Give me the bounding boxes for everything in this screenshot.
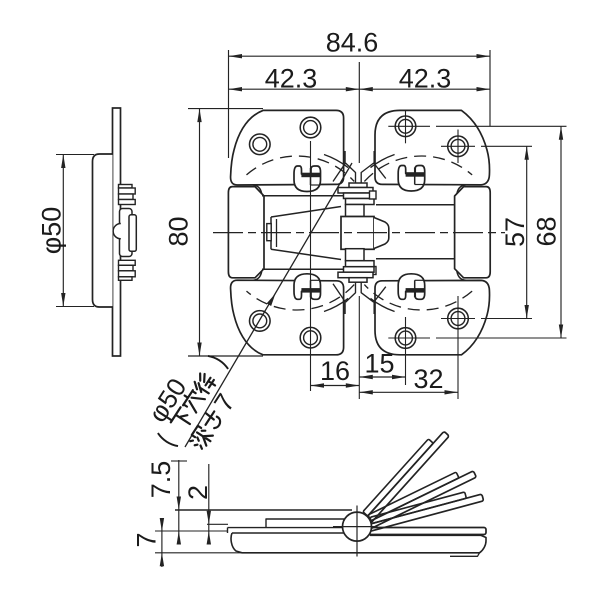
closed flap bar (right wing) xyxy=(362,528,486,535)
hole top-left outer-pair xyxy=(249,134,270,155)
extension line phi50 bottom xyxy=(56,306,94,308)
closed wing ledge xyxy=(266,519,344,528)
leader line pilot hole xyxy=(185,163,352,447)
center gap edge right xyxy=(373,151,375,163)
hole bottom-right inner-pair xyxy=(448,308,469,329)
left cup flange arc lower xyxy=(324,298,348,311)
extension line bottom (80) xyxy=(188,355,263,357)
pivot horizontal centerline xyxy=(333,526,378,528)
chamfer top-right plate xyxy=(457,185,466,196)
extension line hole 57 bottom xyxy=(481,318,532,320)
left band top edge xyxy=(262,195,343,197)
side view knuckle block xyxy=(129,215,136,252)
side view pin bulge xyxy=(113,224,121,239)
dimension 68 line xyxy=(560,126,562,338)
crosshair hole bottom-right inner xyxy=(441,318,475,320)
svg-text:80: 80 xyxy=(163,216,193,246)
closed wing left end xyxy=(227,528,229,533)
open flap at 26 deg xyxy=(359,465,476,531)
extension line hole 68 bottom xyxy=(436,337,567,339)
dimension 7 line xyxy=(161,518,163,567)
dimension phi50 arrows xyxy=(61,155,65,169)
extension line x458 bottom xyxy=(457,335,459,399)
tray top edge right xyxy=(370,534,481,536)
column block T5 xyxy=(346,205,365,217)
right band bottom edge xyxy=(376,258,455,260)
dimension 84.6 arrow right xyxy=(477,54,491,58)
column main block xyxy=(341,217,374,250)
left arm xyxy=(228,187,264,278)
pivot vertical centerline xyxy=(356,506,358,557)
dimension 7.5 text xyxy=(146,461,176,499)
column cap bottom xyxy=(349,278,367,283)
dimension 42.3 right line xyxy=(359,88,490,90)
column bar T2 xyxy=(338,188,373,194)
right arm xyxy=(455,187,491,278)
extension line (2 upper) xyxy=(207,523,228,525)
spring hook bottom xyxy=(370,267,377,275)
hole bottom-left inner-pair xyxy=(300,327,321,348)
extension line phi50 top xyxy=(56,154,94,156)
right cup circle bottom arc xyxy=(364,285,472,310)
dimension 7 arrows xyxy=(160,518,164,532)
hole centerline left inner pair xyxy=(310,141,312,391)
bottom gap edge right xyxy=(373,302,375,314)
column bar B2 xyxy=(338,272,373,278)
dimension 2 line xyxy=(208,464,210,544)
extension line hole 68 top xyxy=(436,125,567,127)
spring clip top-left xyxy=(294,166,321,192)
extension line (7 bottom) xyxy=(155,552,242,554)
dimension 42.3 left arrows xyxy=(229,87,243,91)
open flap at 48 deg xyxy=(356,427,449,528)
pivot knuckle circle xyxy=(343,512,372,541)
svg-text:57: 57 xyxy=(500,217,530,247)
side view knuckle fin 3 xyxy=(119,200,136,205)
closed wing bottom edge xyxy=(228,527,345,529)
open flap at 15 deg xyxy=(360,488,483,533)
svg-text:32: 32 xyxy=(413,364,443,394)
pivot housing left edge xyxy=(343,519,345,533)
side view knuckle fin 4 xyxy=(119,260,136,265)
annotation (pilot hole dia.) xyxy=(157,354,230,448)
crosshair hole top-right outer xyxy=(388,125,430,127)
chamfer bottom-left plate xyxy=(253,269,262,280)
svg-text:68: 68 xyxy=(531,216,561,246)
svg-text:42.3: 42.3 xyxy=(399,63,452,93)
spring clip top-right xyxy=(398,166,425,192)
svg-text:84.6: 84.6 xyxy=(326,28,379,58)
chamfer top-left plate xyxy=(253,185,262,196)
left band bottom edge xyxy=(262,268,343,270)
side view knuckle cap bottom xyxy=(119,277,133,281)
crosshair hole top-right inner xyxy=(441,145,475,147)
lever inner edge xyxy=(276,219,278,247)
hole bottom-left outer-pair xyxy=(249,311,270,332)
closed wing top edge + extension xyxy=(175,509,352,511)
column bar B4 xyxy=(346,261,375,267)
dimension 68 arrows xyxy=(559,126,563,140)
lever boss xyxy=(267,224,271,241)
hole top-left inner-pair xyxy=(300,117,321,138)
svg-text:16: 16 xyxy=(320,356,350,386)
svg-text:15: 15 xyxy=(364,348,394,378)
dimension 7 text xyxy=(131,532,161,547)
spring hook top xyxy=(370,191,377,199)
hole top-right outer-pair xyxy=(395,116,416,137)
extension line hole 57 top xyxy=(481,145,532,147)
extension line center (42.3) xyxy=(358,62,360,163)
side view knuckle fin 2 xyxy=(119,194,134,200)
right band top edge xyxy=(376,204,455,206)
extension line x405 bottom xyxy=(405,355,407,385)
dimension 80 arrows xyxy=(197,109,201,123)
annotation depth 7 xyxy=(183,388,240,454)
tray outline xyxy=(231,533,486,553)
column bar B3 xyxy=(344,267,375,273)
bottom-right wing plate xyxy=(375,280,490,354)
dimension 80 line xyxy=(199,109,201,356)
svg-text:φ50: φ50 xyxy=(36,207,66,255)
bottom mount tab xyxy=(333,282,386,303)
dimension 32 arrows xyxy=(359,390,373,394)
bottom-left wing plate xyxy=(231,280,344,355)
extension line (2/7.5 lower) xyxy=(155,530,227,532)
dimension 7.5 line xyxy=(178,460,180,544)
dimension 84.6 arrow left xyxy=(229,54,243,58)
column bar T3 xyxy=(344,193,375,199)
spring clip bottom-left xyxy=(294,274,321,300)
top-left wing plate xyxy=(231,110,344,185)
dimension 42.3 left line xyxy=(229,88,360,90)
column block B5 xyxy=(346,249,365,261)
left cup flange arc upper xyxy=(324,155,348,168)
extension line left (84.6/42.3) xyxy=(228,50,230,158)
side view knuckle fin 5 xyxy=(119,265,134,271)
horizontal centerline xyxy=(213,232,505,234)
column cap top xyxy=(349,183,367,188)
right cup circle top arc xyxy=(364,156,472,181)
hole bottom-right outer-pair xyxy=(395,328,416,349)
right cup flange arc upper xyxy=(371,155,395,168)
side view knuckle body xyxy=(120,209,133,257)
tray bottom step xyxy=(450,553,480,557)
dimension 15 arrows xyxy=(359,375,373,379)
dimension 2 arrows xyxy=(207,511,211,525)
side view knuckle fin 6 xyxy=(119,271,136,277)
side view mounting plate xyxy=(113,108,121,356)
dimension 57 line xyxy=(526,146,528,318)
dimension 80 text xyxy=(163,216,193,246)
dimension 15 line xyxy=(359,376,405,378)
lever left edge xyxy=(270,217,272,249)
extension line center bottom xyxy=(358,296,360,399)
cam follower xyxy=(374,218,389,249)
crosshair hole bottom-right outer xyxy=(388,337,430,339)
dimension 16 line xyxy=(311,385,360,387)
lever top edge xyxy=(271,207,341,218)
left cup circle bottom arc xyxy=(246,285,354,310)
dimension 57 arrows xyxy=(525,146,529,160)
top-right wing plate xyxy=(375,110,490,184)
extension line right (84.6/42.3) xyxy=(489,50,491,126)
dimension 32 line xyxy=(359,391,458,393)
dimension phi50 text xyxy=(36,207,66,255)
svg-text:7: 7 xyxy=(131,532,161,547)
dimension 57 text xyxy=(500,217,530,247)
dimension 42.3 right arrows xyxy=(359,87,373,91)
top mount tab xyxy=(333,163,386,184)
center gap edge left xyxy=(344,151,346,163)
pivot housing right edge xyxy=(369,528,371,536)
dimension 16 arrows xyxy=(311,383,325,387)
dimension 84.6 line xyxy=(229,55,491,57)
right cup flange arc lower xyxy=(371,298,395,311)
chamfer bottom-right plate xyxy=(457,269,466,280)
extension line top (80) xyxy=(188,108,263,110)
annotation phi50 xyxy=(142,373,192,428)
svg-text:42.3: 42.3 xyxy=(265,63,318,93)
dimension 7.5 tick xyxy=(171,460,187,462)
dimension 7.5 arrows xyxy=(177,497,181,511)
side view knuckle fin 1 xyxy=(119,188,136,194)
dimension 68 text xyxy=(531,216,561,246)
leader arrowhead xyxy=(267,294,276,307)
tray top edge left xyxy=(232,532,344,534)
hole top-right inner-pair xyxy=(448,136,469,157)
dimension phi50 line xyxy=(62,155,64,307)
svg-text:2: 2 xyxy=(183,485,213,500)
dimension 2 text xyxy=(183,485,213,500)
left cup circle top arc xyxy=(246,156,354,181)
spring clip bottom-right xyxy=(398,274,425,300)
bottom gap edge left xyxy=(344,302,346,314)
lever bottom edge xyxy=(271,249,341,259)
column bar T4 xyxy=(346,199,375,205)
side view cup xyxy=(93,154,113,307)
svg-text:7.5: 7.5 xyxy=(146,461,176,499)
side view knuckle cap top xyxy=(119,185,133,189)
